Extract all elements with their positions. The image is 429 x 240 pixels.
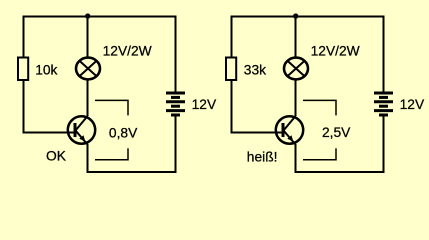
svg-text:12V/2W: 12V/2W — [103, 43, 152, 58]
wire: right top rail to lamp — [295, 16, 297, 59]
svg-text:heiß!: heiß! — [247, 150, 278, 165]
svg-text:2,5V: 2,5V — [322, 125, 351, 140]
lamp 12V/2W (right) — [284, 58, 308, 80]
svg-text:12V/2W: 12V/2W — [311, 43, 360, 58]
wire: left circuit top rail — [23, 16, 177, 18]
transistor Q2 (NPN) — [276, 116, 303, 145]
wire: left circuit left branch lower segment — [23, 80, 25, 134]
svg-text:OK: OK — [46, 149, 67, 164]
wire: top rail to lamp — [87, 16, 89, 59]
svg-text:12V: 12V — [192, 97, 217, 112]
wire: right battery down to bottom rail — [383, 115, 385, 173]
wire: left circuit bottom rail — [87, 171, 177, 173]
svg-text:10k: 10k — [35, 63, 57, 78]
wire: right circuit left branch upper segment — [231, 16, 233, 59]
svg-text:33k: 33k — [244, 63, 266, 78]
wire: right lamp to transistor collector — [295, 79, 297, 117]
wire: right top rail to battery — [383, 16, 385, 94]
wire: lamp to transistor collector — [87, 79, 89, 117]
svg-text:12V: 12V — [400, 97, 425, 112]
wire: base lead to transistor — [23, 132, 76, 134]
wire: right emitter down to bottom rail — [295, 144, 297, 173]
wire: right circuit bottom rail — [295, 171, 385, 173]
wire: base lead to right transistor — [231, 132, 284, 134]
resistor 10k — [18, 58, 28, 81]
wire: right circuit top rail — [231, 16, 385, 18]
battery 12V (left) — [166, 93, 185, 115]
wire: battery down to bottom rail — [175, 115, 177, 173]
svg-text:0,8V: 0,8V — [109, 125, 138, 140]
bracket: voltage measurement 2,5V — [303, 100, 336, 159]
resistor 33k — [226, 58, 236, 81]
wire: top rail to battery — [175, 16, 177, 94]
lamp 12V/2W — [76, 58, 100, 80]
wire: right circuit left branch lower segment — [231, 80, 233, 134]
wire: left circuit left branch upper segment — [23, 16, 25, 59]
bracket: voltage measurement 0,8V — [95, 100, 128, 159]
node: junction dot on right top rail — [293, 13, 298, 18]
node: junction dot on top rail — [85, 13, 90, 18]
transistor Q1 (NPN) — [68, 116, 95, 145]
wire: emitter down to bottom rail — [87, 144, 89, 173]
battery 12V (right) — [374, 93, 393, 115]
